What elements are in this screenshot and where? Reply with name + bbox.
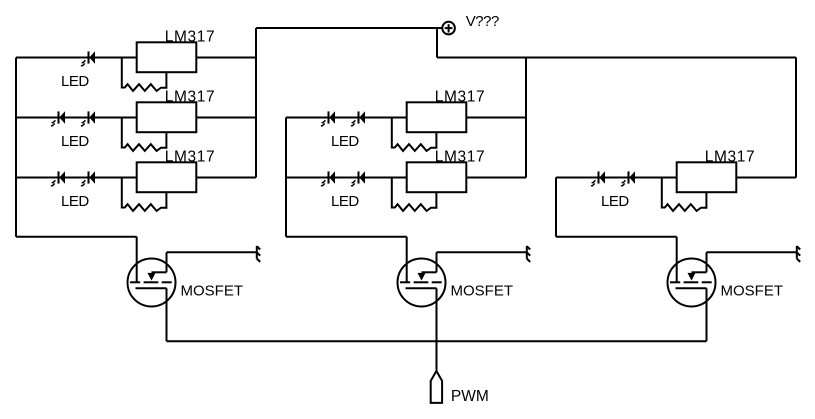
svg-text:LED: LED [61, 133, 89, 150]
wire: group 3 row 1 anode wire [556, 177, 677, 179]
wire: right rail group 1 (V+ feed) [255, 28, 257, 178]
wire: V+ feed to groups 2,3 [437, 57, 796, 59]
svg-text:LED: LED [601, 193, 629, 210]
wire: group 1 row 3 anode wire [16, 177, 137, 179]
wire: Q2 source to supply [437, 251, 527, 253]
power wave symbol (Q3 source) [797, 246, 800, 262]
wire: U5 output to right rail [466, 177, 526, 179]
svg-text:LED: LED [331, 193, 359, 210]
svg-text:MOSFET: MOSFET [451, 282, 514, 299]
wire: top feed to V??? [256, 27, 442, 29]
wire: group 2 row 2 anode wire [286, 177, 407, 179]
LED D1 [81, 51, 95, 66]
regulator U6 LM317 body [677, 162, 737, 192]
wire: left rail group 3 [555, 178, 557, 237]
transistor Q1 MOSFET [128, 252, 176, 306]
connector PWM [431, 371, 442, 403]
wire: group 2 rail to MOSFET drain [286, 237, 407, 283]
power wave symbol (Q2 source) [527, 246, 530, 262]
regulator U5 LM317 body [407, 162, 467, 192]
transistor Q3 MOSFET [668, 252, 716, 306]
wire: Q1 gate down [166, 288, 168, 341]
regulator U2 LM317 body [137, 102, 197, 132]
wire: group 2 row 1 anode wire [286, 117, 407, 119]
LED D3 [81, 111, 95, 126]
wire: U4 output to right rail [466, 117, 526, 119]
wire: group 3 rail to MOSFET drain [556, 237, 677, 283]
LED D4 [51, 171, 65, 186]
wire: U6 output to right rail [736, 177, 796, 179]
wire: group 1 row 2 anode wire [16, 117, 137, 119]
power wave symbol (Q1 source) [257, 246, 260, 262]
svg-text:LM317: LM317 [165, 29, 215, 46]
svg-text:LED: LED [61, 193, 89, 210]
svg-text:LM317: LM317 [705, 149, 755, 166]
wire: Q3 gate down [706, 288, 708, 341]
svg-text:MOSFET: MOSFET [721, 282, 784, 299]
svg-text:V???: V??? [466, 13, 499, 30]
wire: U1 output to right rail [196, 57, 256, 59]
wire: Q3 source to supply [707, 251, 797, 253]
regulator U3 LM317 body [137, 162, 197, 192]
regulator U4 LM317 body [407, 102, 467, 132]
svg-text:LED: LED [331, 133, 359, 150]
LED D9 [351, 171, 365, 186]
svg-text:PWM: PWM [451, 388, 489, 405]
LED D5 [81, 171, 95, 186]
power symbol V??? (circle plus) [442, 22, 455, 35]
wire: gate bus [167, 340, 707, 342]
svg-text:MOSFET: MOSFET [181, 282, 244, 299]
wire: right rail group 2 (V+ feed) [525, 58, 527, 178]
resistor R2 (LM317 ADJ network) [122, 118, 167, 151]
svg-text:LM317: LM317 [435, 149, 485, 166]
wire: U3 output to right rail [196, 177, 256, 179]
wire: left rail group 2 [285, 118, 287, 237]
resistor R4 (LM317 ADJ network) [392, 118, 437, 151]
wire: left rail group 1 [15, 58, 17, 237]
transistor Q2 MOSFET [398, 252, 446, 306]
LED D11 [621, 171, 635, 186]
wire: Q2 gate down [436, 288, 438, 371]
svg-text:LM317: LM317 [165, 89, 215, 106]
resistor R3 (LM317 ADJ network) [122, 178, 167, 211]
wire: V junction drop [436, 28, 438, 58]
LED D10 [591, 171, 605, 186]
svg-text:LED: LED [61, 73, 89, 90]
LED D8 [321, 171, 335, 186]
resistor R1 (LM317 ADJ network) [122, 58, 167, 91]
wire: Q1 source to supply [167, 251, 257, 253]
LED D7 [351, 111, 365, 126]
resistor R5 (LM317 ADJ network) [392, 178, 437, 211]
svg-text:LM317: LM317 [165, 149, 215, 166]
wire: group 1 row 1 anode wire [16, 57, 137, 59]
wire: group 1 rail to MOSFET drain [16, 237, 137, 283]
LED D2 [51, 111, 65, 126]
wire: U2 output to right rail [196, 117, 256, 119]
wire: right rail group 3 (V+ feed) [795, 58, 797, 178]
LED D6 [321, 111, 335, 126]
resistor R6 (LM317 ADJ network) [662, 178, 707, 211]
regulator U1 LM317 body [137, 42, 197, 72]
svg-text:LM317: LM317 [435, 89, 485, 106]
